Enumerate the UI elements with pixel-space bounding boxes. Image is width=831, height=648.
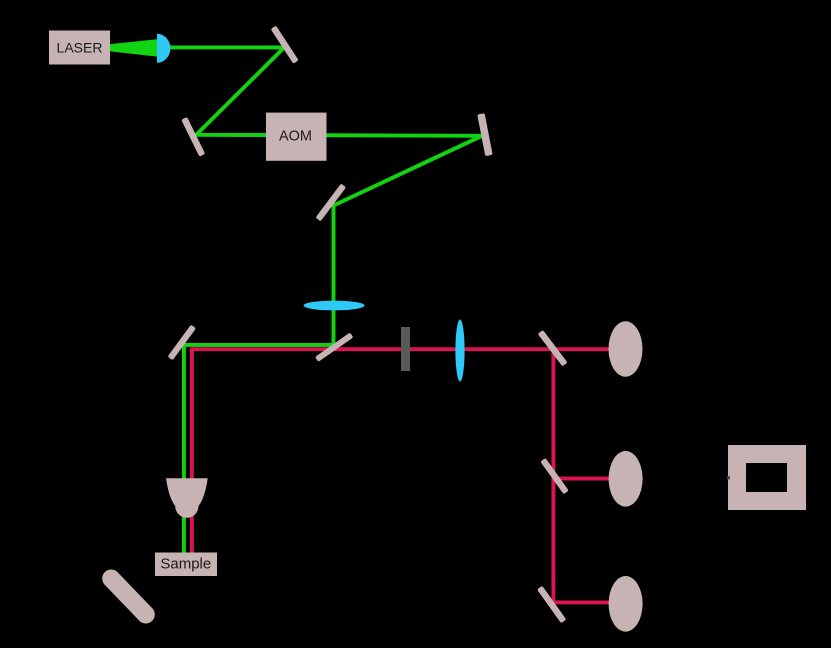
node tick on camera left edge <box>727 476 730 479</box>
objective lens cone above sample <box>166 478 208 518</box>
svg-text:LASER: LASER <box>57 39 103 55</box>
wire crimson return beam sample to detector D1 <box>192 349 620 554</box>
wire crimson beam M7 branch to D2 <box>553 477 618 481</box>
lens L2 focusing horizontal <box>304 301 365 311</box>
detector D3 <box>609 576 643 632</box>
wire crimson beam M6 down to M8 and out to D3 <box>553 349 618 602</box>
wire green beam path laser to sample via mirrors <box>161 47 482 554</box>
sample stage box Sample <box>155 553 217 577</box>
svg-text:Sample: Sample <box>160 556 211 573</box>
mirror M6 pick-off <box>538 330 568 367</box>
mirror M3 <box>477 113 492 156</box>
svg-text:AOM: AOM <box>279 128 312 144</box>
modulator box AOM <box>266 113 327 161</box>
mirror M8 <box>537 586 566 624</box>
lens L1 collimating D-shaped <box>157 34 170 63</box>
mirror M5 <box>168 325 197 361</box>
beamsplitter BS <box>315 332 354 361</box>
detector D1 <box>609 321 643 377</box>
filter gray bar <box>401 327 410 371</box>
lens L3 vertical <box>455 320 464 382</box>
mirror M4 <box>315 183 346 221</box>
mirror M2 <box>181 117 205 157</box>
laser source box LASER <box>49 31 110 65</box>
mirror M1 <box>271 26 299 64</box>
detector D2 <box>609 451 643 507</box>
mirror M7 <box>540 458 568 494</box>
wire green beam cone from laser to collimating lens <box>110 39 157 56</box>
beam dump capsule <box>111 579 146 615</box>
camera frame <box>728 445 806 510</box>
